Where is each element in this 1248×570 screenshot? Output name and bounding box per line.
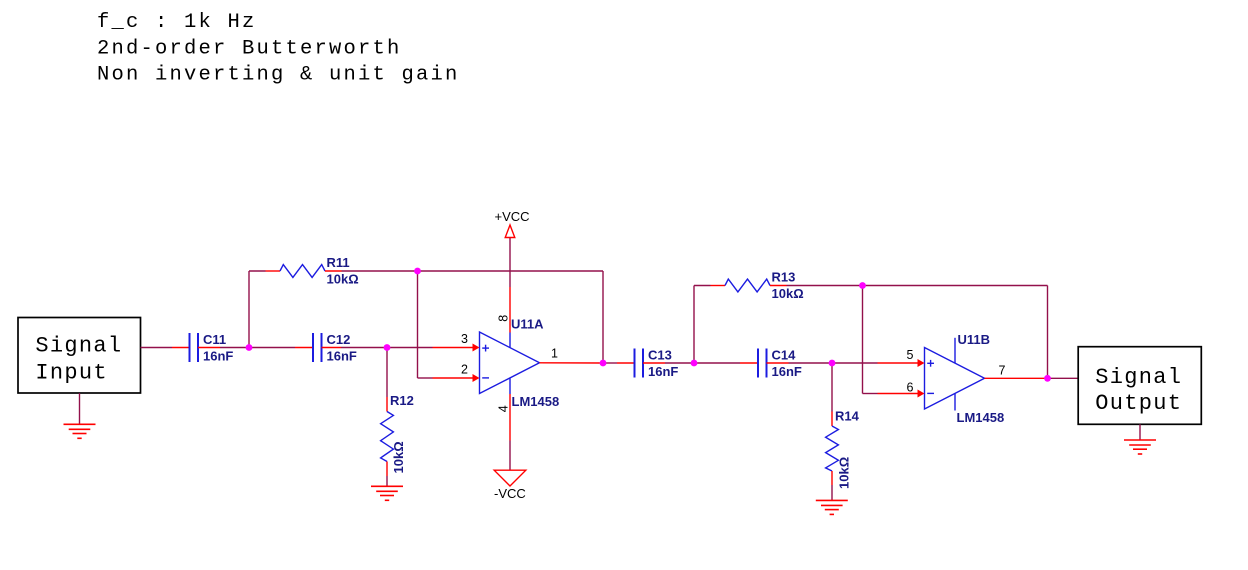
junction R13 right xyxy=(859,282,866,289)
ground (R14) xyxy=(816,500,848,514)
title text xyxy=(97,11,460,87)
svg-text:-VCC: -VCC xyxy=(494,486,526,501)
junction R11 right xyxy=(414,268,421,275)
svg-text:16nF: 16nF xyxy=(327,349,357,364)
svg-text:2: 2 xyxy=(461,363,468,377)
capacitor C12 xyxy=(295,333,341,362)
pin 5 lead and arrow xyxy=(878,359,925,367)
svg-text:C13: C13 xyxy=(648,348,672,363)
svg-text:Output: Output xyxy=(1095,391,1182,416)
junction node C xyxy=(691,360,698,367)
resistor R12 xyxy=(381,397,394,476)
svg-text:C12: C12 xyxy=(327,332,351,347)
wire node D down to R14 xyxy=(831,363,833,412)
svg-text:+VCC: +VCC xyxy=(495,209,530,224)
resistor R14 xyxy=(826,412,839,486)
wire node B down to R12 xyxy=(386,348,388,398)
wire R13 left segment xyxy=(694,285,711,287)
wire C14 to op-amp pin 5 xyxy=(789,362,878,364)
svg-text:R11: R11 xyxy=(327,255,350,270)
wire feedback down to pin 6 level xyxy=(862,286,864,394)
svg-text:R13: R13 xyxy=(772,270,796,285)
ground (input) xyxy=(64,424,96,438)
pin 8 power lead xyxy=(509,238,511,348)
-VCC symbol xyxy=(494,470,526,486)
wire input box to ground xyxy=(79,393,81,423)
svg-text:16nF: 16nF xyxy=(203,349,233,364)
svg-text:10kΩ: 10kΩ xyxy=(391,441,406,473)
wire node A up to R11 xyxy=(248,271,250,348)
svg-text:16nF: 16nF xyxy=(648,364,678,379)
junction node B xyxy=(384,344,391,351)
Signal Output box xyxy=(1078,347,1201,425)
wire feedback down to pin 2 level xyxy=(417,271,419,378)
ground (R12) xyxy=(371,486,403,500)
svg-text:f_c : 1k Hz: f_c : 1k Hz xyxy=(97,11,257,34)
wire R11 left segment xyxy=(249,270,266,272)
svg-text:U11B: U11B xyxy=(958,332,991,347)
wire R13 to feedback corner xyxy=(787,285,1048,287)
svg-text:R12: R12 xyxy=(390,393,414,408)
wire C11 to C12 (node A) xyxy=(220,347,295,349)
wire input box to C11 xyxy=(141,347,173,349)
svg-text:16nF: 16nF xyxy=(772,364,802,379)
svg-text:1: 1 xyxy=(551,347,558,361)
svg-text:Signal: Signal xyxy=(1095,365,1182,390)
svg-text:10kΩ: 10kΩ xyxy=(772,286,804,301)
junction output U11B xyxy=(1044,375,1051,382)
svg-text:5: 5 xyxy=(907,348,914,362)
Signal Input box xyxy=(18,318,141,394)
svg-text:C11: C11 xyxy=(203,332,226,347)
svg-text:3: 3 xyxy=(461,332,468,346)
svg-text:7: 7 xyxy=(999,364,1006,378)
pin 2 lead and arrow xyxy=(433,374,480,382)
wire R14 to ground xyxy=(831,485,833,501)
op-amp U11A xyxy=(480,332,540,394)
+VCC symbol xyxy=(505,225,515,238)
pin 7 output lead xyxy=(985,377,1048,379)
wire short to pin 6 lead xyxy=(863,393,878,395)
wire R12 to ground xyxy=(386,476,388,487)
wire feedback down to output node xyxy=(602,271,604,363)
svg-text:Non inverting & unit gain: Non inverting & unit gain xyxy=(97,64,460,87)
pin 3 lead and arrow xyxy=(433,344,480,352)
pin 6 lead and arrow xyxy=(878,390,925,398)
svg-text:4: 4 xyxy=(497,405,511,412)
svg-text:C14: C14 xyxy=(772,348,797,363)
wire short to pin 2 lead xyxy=(418,377,433,379)
wire R11 to feedback corner xyxy=(342,270,604,272)
junction output U11A xyxy=(600,360,607,367)
wire node C up to R13 xyxy=(693,286,695,364)
svg-text:Input: Input xyxy=(35,360,108,385)
wire feedback down to output node (stage 2) xyxy=(1047,286,1049,379)
junction node D xyxy=(829,360,836,367)
pin 1 output lead xyxy=(540,362,604,364)
pin 4 power lead xyxy=(509,379,511,471)
wire C12 to op-amp pin 3 xyxy=(341,347,433,349)
junction node A xyxy=(246,344,253,351)
capacitor C11 xyxy=(172,333,220,362)
wire output node to Signal Output box xyxy=(1048,377,1079,379)
wire output box to ground xyxy=(1139,424,1141,440)
svg-text:LM1458: LM1458 xyxy=(512,394,560,409)
svg-text:8: 8 xyxy=(497,315,511,322)
svg-text:U11A: U11A xyxy=(511,317,544,332)
svg-text:LM1458: LM1458 xyxy=(957,410,1005,425)
svg-text:6: 6 xyxy=(907,381,914,395)
svg-text:10kΩ: 10kΩ xyxy=(327,272,359,287)
capacitor C13 xyxy=(617,349,665,378)
resistor R13 xyxy=(711,279,787,292)
svg-text:Signal: Signal xyxy=(35,334,122,359)
capacitor C14 xyxy=(740,349,789,378)
svg-text:2nd-order Butterworth: 2nd-order Butterworth xyxy=(97,38,402,61)
resistor R11 xyxy=(266,265,342,278)
svg-text:10kΩ: 10kΩ xyxy=(837,457,852,489)
wire output node to C13 xyxy=(603,362,617,364)
wire C13 to C14 (node C) xyxy=(665,362,740,364)
svg-text:R14: R14 xyxy=(835,409,860,424)
ground (output) xyxy=(1124,440,1156,454)
op-amp U11B xyxy=(925,338,985,411)
